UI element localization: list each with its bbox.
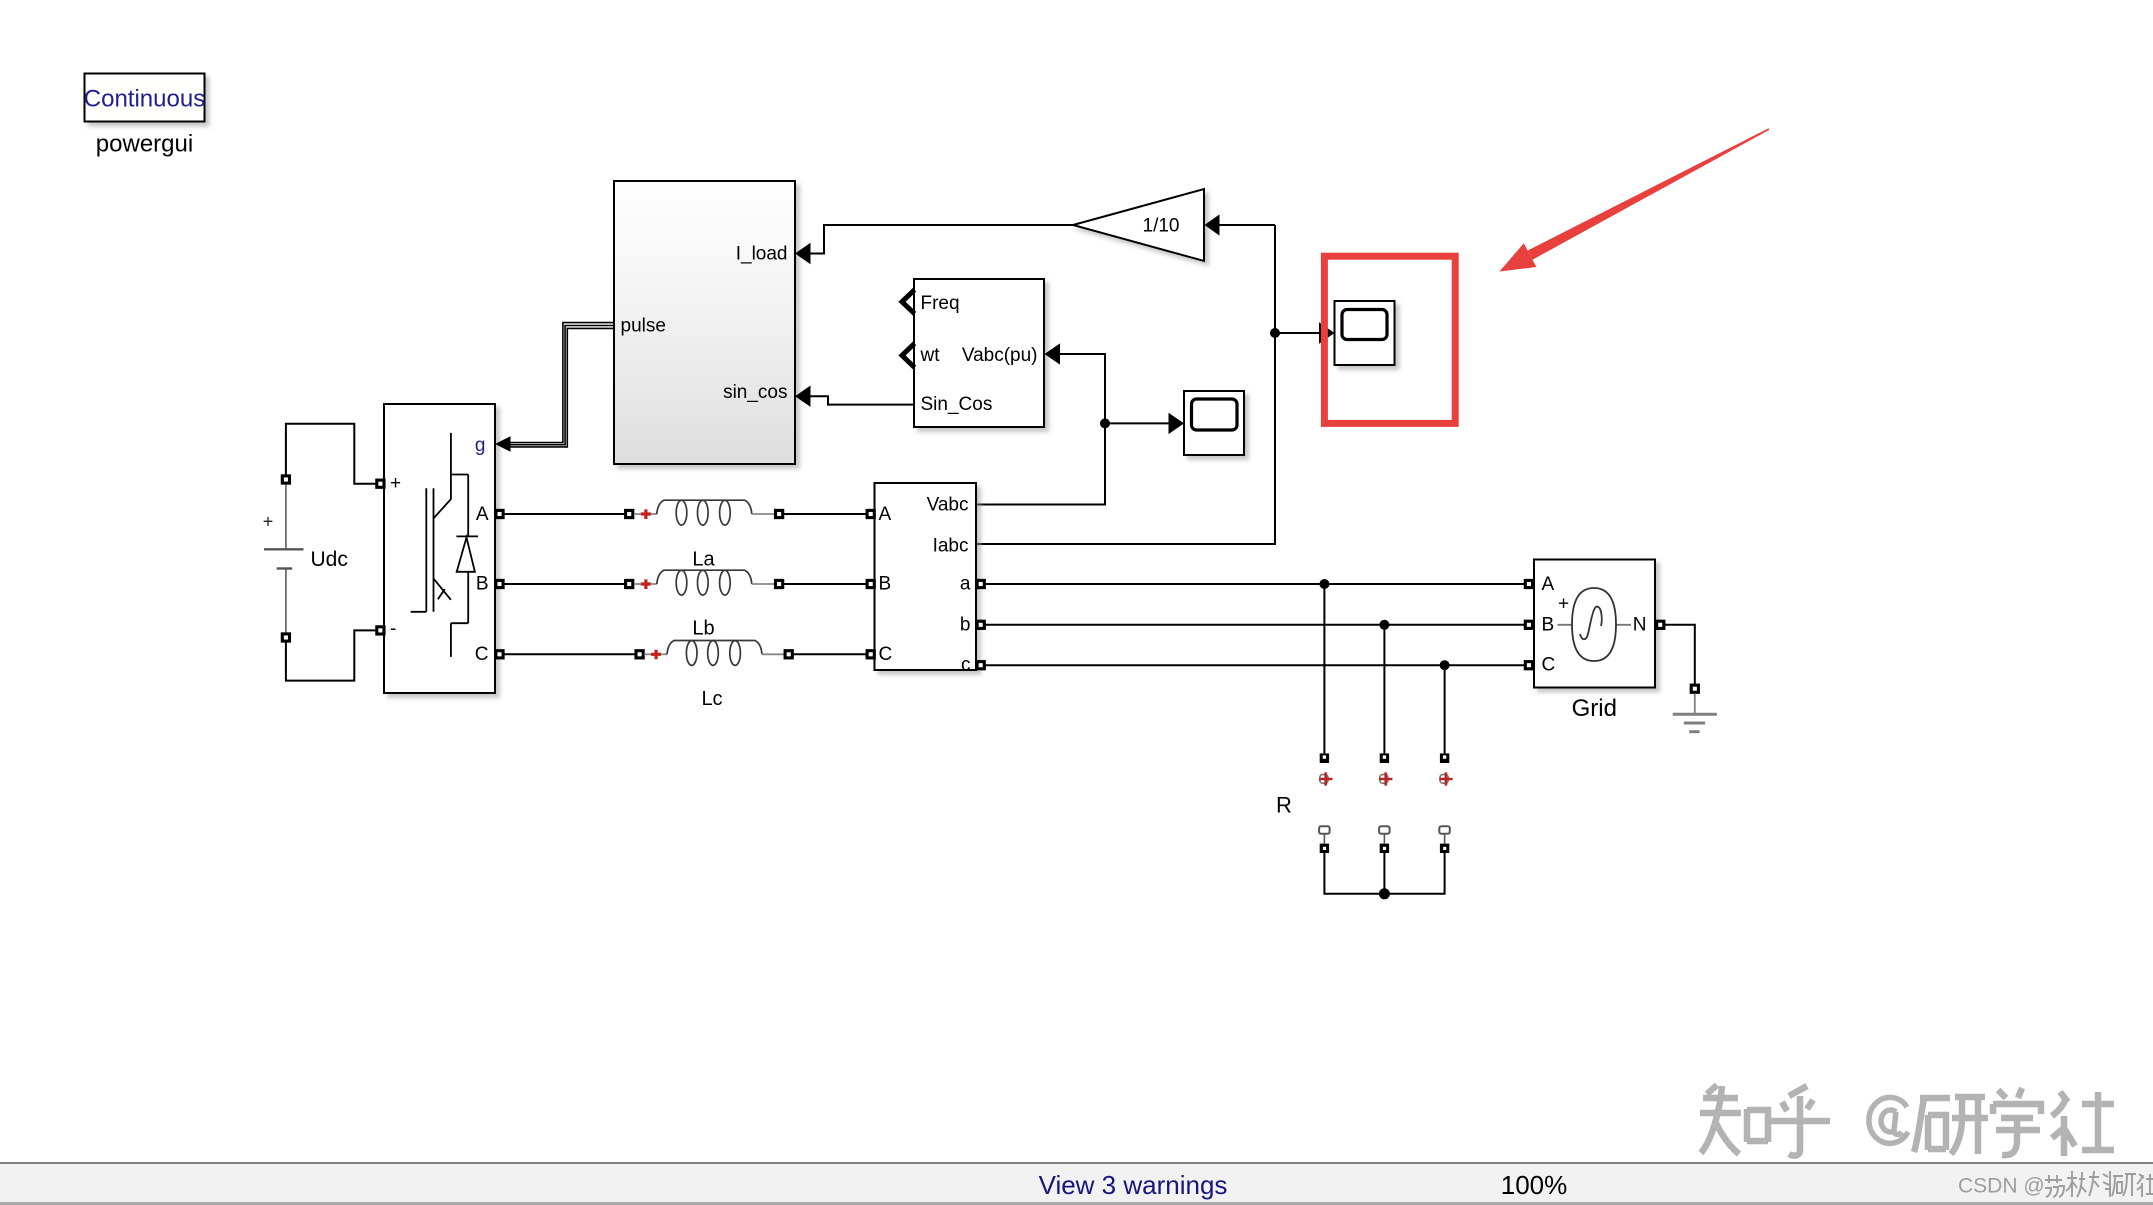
inductor Lc (row C) bbox=[636, 641, 792, 666]
svg-text:100%: 100% bbox=[1501, 1170, 1568, 1200]
svg-text:c: c bbox=[961, 655, 971, 676]
inductor La (row A) bbox=[626, 500, 783, 525]
svg-text:+: + bbox=[390, 473, 401, 494]
svg-text:C: C bbox=[475, 644, 489, 665]
measurement port a bbox=[977, 580, 984, 587]
resistor R1 bbox=[1319, 753, 1332, 853]
three-phase VI measurement block bbox=[875, 483, 977, 676]
svg-text:powergui: powergui bbox=[96, 131, 193, 158]
wire N to ground bbox=[1665, 625, 1695, 684]
svg-text:Continuous: Continuous bbox=[84, 86, 205, 113]
svg-text:A: A bbox=[1542, 574, 1555, 595]
scope2 input arrow bbox=[1319, 322, 1335, 343]
PLL Freq input chevron bbox=[902, 290, 915, 314]
status warnings link bbox=[1039, 1170, 1228, 1200]
PLL block (Freq wt Vabc(pu) Sin_Cos) bbox=[914, 279, 1044, 427]
Grid port C bbox=[1525, 662, 1532, 669]
DC source Udc bbox=[263, 484, 304, 632]
Udc port bottom bbox=[282, 634, 289, 641]
Grid port N bbox=[1657, 621, 1664, 628]
bridge port A bbox=[496, 510, 503, 517]
svg-text:C: C bbox=[1542, 655, 1556, 676]
junction node b bbox=[1379, 620, 1389, 630]
bridge g input arrow bbox=[495, 436, 511, 452]
scope1 input arrow bbox=[1169, 413, 1185, 434]
svg-text:Sin_Cos: Sin_Cos bbox=[921, 394, 993, 415]
Udc port top bbox=[282, 476, 289, 483]
svg-text:b: b bbox=[960, 614, 971, 635]
svg-text:g: g bbox=[475, 435, 486, 456]
bridge port B bbox=[496, 580, 503, 587]
label La bbox=[692, 549, 715, 571]
Grid label bbox=[1572, 695, 1617, 722]
wire bridge A to inductor La bbox=[504, 513, 625, 515]
measurement port b bbox=[977, 621, 984, 628]
wire Iabc riser to scope2 branch bbox=[976, 225, 1319, 544]
pulse triple wire bundle bbox=[511, 323, 615, 447]
wire bridge C to inductor Lc bbox=[504, 653, 636, 655]
wire Udc+ to bridge + bbox=[286, 424, 376, 484]
gain input arrow bbox=[1205, 214, 1220, 235]
measurement port B bbox=[867, 580, 874, 587]
label Lc bbox=[701, 688, 722, 710]
resistor R3 bbox=[1439, 753, 1452, 853]
svg-text:B: B bbox=[1542, 614, 1555, 635]
svg-text:+: + bbox=[1558, 594, 1569, 615]
resistor R2 bbox=[1379, 753, 1392, 853]
riser c to R3 bbox=[1444, 665, 1446, 753]
svg-text:CSDN @: CSDN @ bbox=[1958, 1175, 2045, 1198]
svg-text:Grid: Grid bbox=[1572, 695, 1617, 722]
junction node Vabc riser bbox=[1100, 418, 1110, 428]
svg-text:B: B bbox=[476, 574, 489, 595]
watermark zhihu bbox=[1700, 1085, 2114, 1156]
svg-text:B: B bbox=[879, 574, 892, 595]
svg-text:-: - bbox=[390, 619, 396, 640]
wire La to measurement A bbox=[784, 513, 866, 515]
wire b row to Grid B bbox=[985, 624, 1524, 626]
junction node c bbox=[1440, 660, 1450, 670]
bridge IGBT/diode icon bbox=[411, 433, 478, 657]
Udc label bbox=[311, 548, 348, 571]
subsystem block (pulse generator) bbox=[614, 181, 795, 464]
label R bbox=[1276, 793, 1292, 818]
wire branch to scope1 bbox=[1105, 422, 1169, 424]
riser b to R2 bbox=[1383, 625, 1385, 754]
svg-text:pulse: pulse bbox=[621, 316, 666, 337]
PLL Vabc(pu) input arrow bbox=[1045, 343, 1061, 364]
wire R bottom bus bbox=[1324, 853, 1444, 894]
svg-text:1/10: 1/10 bbox=[1143, 216, 1180, 237]
PLL wt input chevron bbox=[902, 343, 915, 367]
bridge block (universal bridge) bbox=[384, 404, 495, 693]
label Lb bbox=[692, 618, 714, 640]
inductor Lb (row B) bbox=[626, 570, 783, 595]
svg-text:Vabc: Vabc bbox=[927, 495, 969, 516]
svg-text:Udc: Udc bbox=[311, 548, 348, 571]
Grid port A bbox=[1525, 580, 1532, 587]
junction node a bbox=[1319, 579, 1329, 589]
wire a row to Grid A bbox=[985, 583, 1524, 585]
status zoom bbox=[1501, 1170, 1568, 1200]
annotation red rectangle bbox=[1324, 256, 1455, 423]
svg-text:a: a bbox=[960, 574, 971, 595]
svg-text:wt: wt bbox=[920, 345, 941, 366]
svg-text:sin_cos: sin_cos bbox=[723, 382, 787, 403]
wire Iabc to gain input bbox=[1220, 224, 1276, 226]
scope U1 bbox=[1184, 391, 1244, 455]
wire gain output to I_load bbox=[811, 225, 1074, 254]
svg-text:A: A bbox=[879, 504, 892, 525]
bridge port C bbox=[496, 651, 503, 658]
svg-text:Lc: Lc bbox=[701, 688, 722, 710]
svg-text:N: N bbox=[1633, 614, 1647, 635]
powergui block bbox=[84, 74, 205, 122]
measurement port A bbox=[867, 510, 874, 517]
svg-text:Vabc(pu): Vabc(pu) bbox=[962, 345, 1038, 366]
powergui label bbox=[96, 131, 193, 158]
svg-text:Lb: Lb bbox=[692, 618, 714, 640]
wire c row to Grid C bbox=[985, 664, 1524, 666]
Grid port B bbox=[1525, 621, 1532, 628]
svg-text:Freq: Freq bbox=[921, 293, 960, 314]
wire bridge B to inductor Lb bbox=[504, 583, 625, 585]
measurement port C bbox=[867, 651, 874, 658]
measurement port c bbox=[977, 662, 984, 669]
junction node R bus bbox=[1379, 888, 1390, 899]
wire Udc- to bridge - bbox=[286, 630, 376, 680]
ground symbol bbox=[1673, 694, 1717, 732]
Grid source block bbox=[1534, 560, 1655, 688]
subsystem sin_cos input arrow bbox=[795, 386, 811, 407]
status bar bbox=[0, 1162, 2153, 1205]
annotation red arrow bbox=[1500, 128, 1770, 271]
svg-text:R: R bbox=[1276, 793, 1292, 818]
ground port bbox=[1691, 685, 1698, 692]
wire Sin_Cos to subsystem sin_cos bbox=[811, 396, 915, 404]
svg-text:A: A bbox=[476, 504, 489, 525]
subsystem I_load input arrow bbox=[795, 243, 811, 264]
svg-text:+: + bbox=[263, 512, 274, 532]
scope U2 bbox=[1335, 301, 1395, 365]
svg-text:I_load: I_load bbox=[736, 244, 788, 265]
wire Vabc to PLL Vabc(pu) with riser bbox=[976, 354, 1105, 505]
riser a to R1 bbox=[1323, 584, 1325, 753]
bridge port - bbox=[377, 627, 384, 634]
gain 1/10 bbox=[1073, 189, 1204, 261]
svg-text:C: C bbox=[879, 644, 893, 665]
junction node Iabc riser bbox=[1270, 328, 1280, 338]
svg-text:View 3 warnings: View 3 warnings bbox=[1039, 1170, 1228, 1200]
svg-text:La: La bbox=[692, 549, 715, 571]
svg-text:Iabc: Iabc bbox=[933, 536, 969, 557]
status csdn watermark bbox=[1958, 1171, 2153, 1198]
bridge port + bbox=[377, 480, 384, 487]
wire Lb to measurement B bbox=[784, 583, 866, 585]
wire Lc to measurement C bbox=[793, 653, 866, 655]
